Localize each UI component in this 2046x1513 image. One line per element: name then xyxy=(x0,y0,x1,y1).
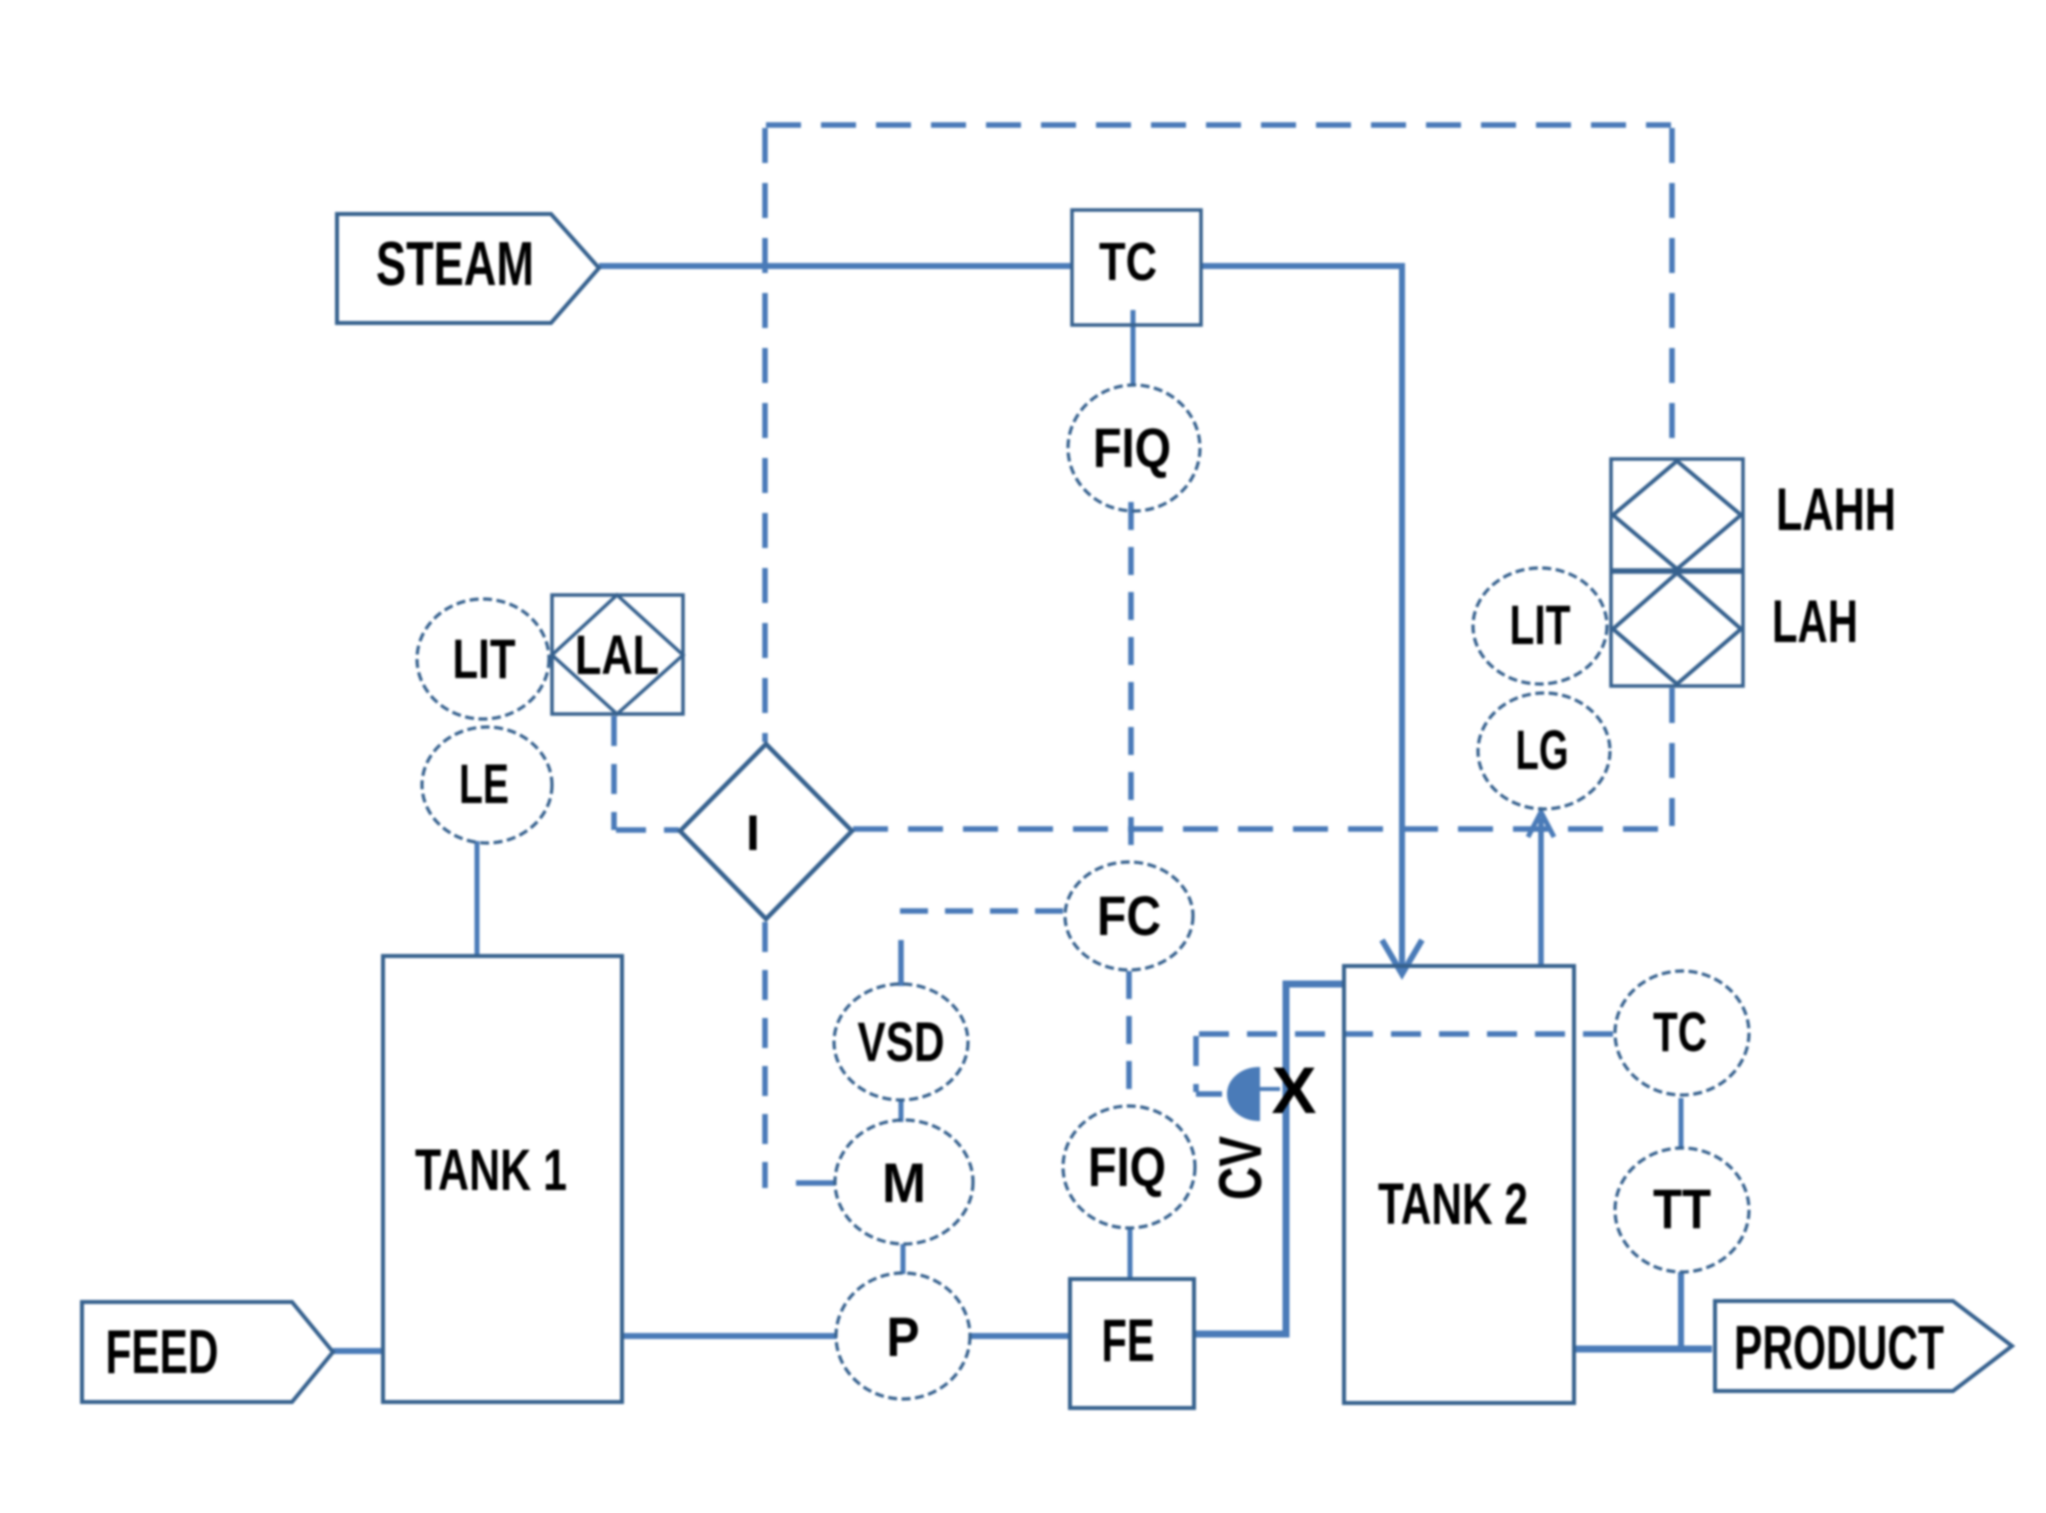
pipe TC to tank2 with corner xyxy=(1201,266,1402,940)
svg-text:TC: TC xyxy=(1653,1000,1707,1063)
pipe STEAM to TC xyxy=(599,263,1071,269)
dashed link TC2 to valve xyxy=(1196,1034,1613,1094)
svg-text:X: X xyxy=(1272,1053,1317,1127)
svg-text:LIT: LIT xyxy=(453,627,516,690)
svg-text:P: P xyxy=(887,1305,920,1368)
svg-text:PRODUCT: PRODUCT xyxy=(1734,1314,1944,1383)
dashed link LAL to interlock corner xyxy=(614,716,679,830)
tank TANK 1 xyxy=(383,956,622,1402)
svg-text:I: I xyxy=(746,805,760,861)
pipe FE to tank2 via valve riser xyxy=(1194,984,1342,1334)
arrowhead into tank2 xyxy=(1382,930,1422,974)
svg-text:VSD: VSD xyxy=(858,1010,945,1073)
svg-text:LAHH: LAHH xyxy=(1776,476,1896,543)
product label arrow PRODUCT xyxy=(1715,1301,2012,1391)
svg-text:FIQ: FIQ xyxy=(1088,1135,1166,1198)
svg-text:LG: LG xyxy=(1516,718,1569,781)
signal loop left dashed edge xyxy=(762,128,768,742)
defs xyxy=(82,125,2012,1408)
feed label arrow STEAM xyxy=(337,214,599,323)
line LE to tank1 xyxy=(475,841,480,956)
alarm box LAL with diamond xyxy=(552,595,683,714)
svg-text:FEED: FEED xyxy=(106,1318,219,1387)
instrument circle LIT (tank2) xyxy=(1473,568,1607,684)
label LAH xyxy=(1772,588,1858,655)
pipe tank2 to PRODUCT xyxy=(1574,1346,1712,1353)
signal loop bottom dashed edge xyxy=(853,826,1671,832)
instrument circle TC (tank2) xyxy=(1615,971,1749,1095)
line FIQ2 to FE xyxy=(1128,1228,1133,1278)
dashed link FC to VSD xyxy=(897,911,1063,986)
instrument circle VSD xyxy=(834,984,968,1100)
line TC box to FIQ xyxy=(1131,310,1136,384)
svg-text:FIQ: FIQ xyxy=(1093,416,1171,479)
signal loop right dashed edge upper xyxy=(1669,128,1675,459)
line TC2 to TT xyxy=(1679,1098,1684,1148)
instrument circle FIQ (steam flow) xyxy=(1068,385,1200,511)
dashed link FC to FIQ2 xyxy=(1126,971,1132,1104)
control valve body X xyxy=(1272,1053,1317,1127)
svg-text:M: M xyxy=(882,1151,926,1214)
svg-text:LAH: LAH xyxy=(1772,588,1858,655)
svg-text:LIT: LIT xyxy=(1510,593,1571,656)
svg-text:TANK 1: TANK 1 xyxy=(415,1138,567,1203)
pipe FEED to tank1 xyxy=(333,1348,383,1354)
alarm stack LAHH/LAH with diamonds xyxy=(1611,459,1743,686)
interlock diamond I xyxy=(680,744,852,919)
svg-text:TT: TT xyxy=(1653,1177,1711,1240)
signal loop top dashed edge xyxy=(766,122,1671,128)
instrument circle LIT (tank1) xyxy=(417,599,549,719)
feed label arrow FEED xyxy=(82,1302,333,1402)
instrument circle TT xyxy=(1615,1148,1749,1272)
line VSD to M xyxy=(899,1100,904,1122)
instrument circle FC xyxy=(1065,862,1193,970)
instrument circle P xyxy=(836,1273,970,1399)
svg-text:FC: FC xyxy=(1097,884,1161,947)
label CV rotated xyxy=(1207,1136,1274,1200)
instrument circle LG xyxy=(1478,693,1610,809)
tank TANK 2 xyxy=(1344,966,1574,1403)
line TT to product pipe xyxy=(1678,1272,1684,1349)
dashed link FIQ to FC xyxy=(1128,502,1134,860)
instrument circle LE xyxy=(422,727,552,843)
control valve actuator CV xyxy=(1228,1068,1280,1120)
label LAHH xyxy=(1776,476,1896,543)
svg-text:LE: LE xyxy=(459,752,509,815)
controller box TC xyxy=(1072,210,1201,325)
svg-text:TANK 2: TANK 2 xyxy=(1378,1172,1528,1237)
svg-text:FE: FE xyxy=(1102,1307,1155,1374)
signal loop right dashed edge lower xyxy=(1669,688,1675,826)
pipe P to FE xyxy=(969,1333,1070,1339)
svg-text:LAL: LAL xyxy=(575,623,659,686)
instrument circle M xyxy=(835,1120,973,1244)
pipe tank1 to P xyxy=(622,1333,837,1339)
flow element box FE xyxy=(1070,1279,1194,1408)
svg-text:STEAM: STEAM xyxy=(376,230,534,299)
instrument circle FIQ (feed flow) xyxy=(1063,1106,1195,1228)
dashed link interlock bottom to M xyxy=(765,922,835,1188)
svg-text:CV: CV xyxy=(1207,1136,1274,1200)
line M to P xyxy=(901,1244,906,1274)
line tank2 to LG with arrowhead xyxy=(1528,812,1554,966)
svg-text:TC: TC xyxy=(1099,232,1157,292)
